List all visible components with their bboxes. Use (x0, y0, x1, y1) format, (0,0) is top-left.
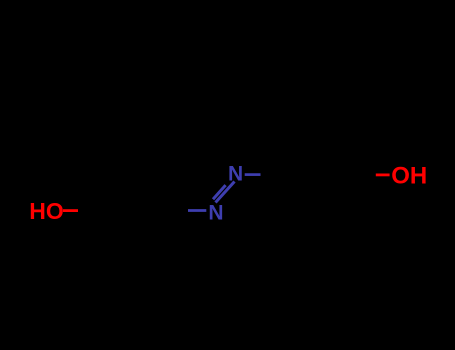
svg-text:HO: HO (29, 198, 64, 224)
svg-text:N: N (228, 162, 243, 185)
svg-text:N: N (208, 201, 223, 224)
svg-text:OH: OH (391, 163, 427, 190)
